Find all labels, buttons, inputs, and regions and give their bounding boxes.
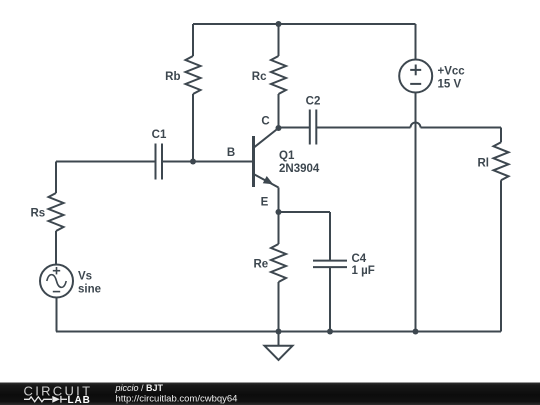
svg-text:C4: C4 xyxy=(352,253,367,265)
svg-text:sine: sine xyxy=(78,284,101,296)
svg-text:Vs: Vs xyxy=(78,271,92,283)
svg-text:piccio / BJT: piccio / BJT xyxy=(115,383,164,393)
svg-text:Q1: Q1 xyxy=(279,150,295,162)
svg-text:15 V: 15 V xyxy=(438,78,462,90)
svg-text:C2: C2 xyxy=(306,95,321,107)
svg-text:http://circuitlab.com/cwbqy64: http://circuitlab.com/cwbqy64 xyxy=(116,394,238,405)
svg-text:C1: C1 xyxy=(152,129,167,141)
svg-text:Rl: Rl xyxy=(478,158,490,170)
svg-text:+Vcc: +Vcc xyxy=(438,65,466,77)
svg-text:Rs: Rs xyxy=(31,208,46,220)
svg-text:Rb: Rb xyxy=(165,71,180,83)
svg-text:C: C xyxy=(261,116,269,128)
svg-text:Re: Re xyxy=(254,259,269,271)
svg-text:E: E xyxy=(261,197,269,209)
svg-text:1 µF: 1 µF xyxy=(352,265,375,277)
svg-text:LAB: LAB xyxy=(68,395,91,405)
svg-text:B: B xyxy=(227,147,235,159)
svg-text:Rc: Rc xyxy=(252,71,267,83)
svg-text:2N3904: 2N3904 xyxy=(279,163,320,175)
